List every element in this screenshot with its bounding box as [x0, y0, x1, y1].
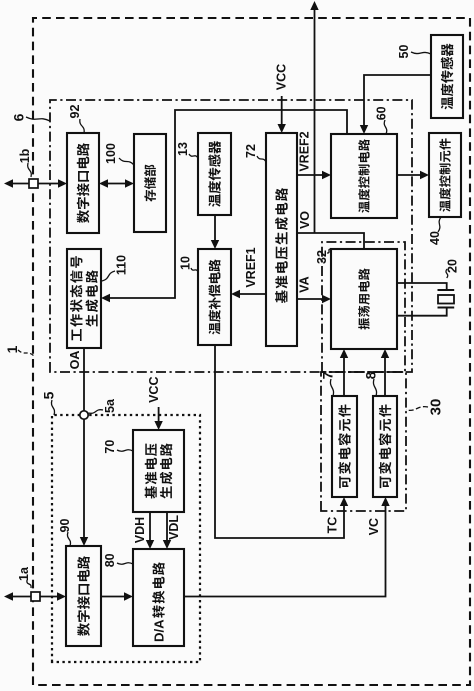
svg-text:VREF1: VREF1 [244, 247, 258, 287]
pad 1b external terminal wire (double arrow) [11, 183, 60, 185]
crystal 20 plate 2 [438, 307, 455, 309]
pad 1b square terminal [29, 179, 38, 188]
svg-text:90: 90 [58, 519, 72, 533]
block 92 digital interface circuit [67, 133, 99, 233]
svg-text:40: 40 [428, 231, 442, 245]
block 10 temperature compensation circuit [198, 249, 231, 345]
block 32 oscillation circuit [331, 249, 397, 349]
svg-text:D/A: D/A [152, 619, 167, 642]
block 8 variable capacitance element [373, 396, 397, 497]
wire VC from 80 to 8 [184, 504, 386, 597]
block 13 temperature sensor [198, 133, 231, 215]
svg-text:8: 8 [363, 371, 379, 379]
wire crystal stub upper [397, 283, 447, 290]
node 5a junction circle [80, 411, 88, 419]
svg-text:13: 13 [176, 142, 190, 156]
block 72 reference voltage generation circuit [266, 133, 297, 346]
crystal 20 plate 1 [438, 289, 455, 291]
svg-text:70: 70 [103, 440, 117, 454]
dotted box 5 (D/A control module) [52, 415, 200, 662]
wire VDH from 70 to 80 arrow [149, 512, 151, 542]
svg-text:100: 100 [104, 143, 118, 164]
svg-text:110: 110 [115, 255, 129, 275]
wire VREF1 from 72 to 10 arrow [238, 293, 266, 295]
block 70 reference voltage generation circuit [133, 430, 184, 512]
svg-text:72: 72 [244, 144, 258, 158]
svg-text:50: 50 [397, 45, 411, 59]
svg-text:1b: 1b [18, 148, 32, 163]
wire TC from 10 to 7 [215, 345, 344, 538]
svg-text:5: 5 [41, 391, 57, 399]
svg-text:92: 92 [68, 105, 82, 119]
svg-text:VDH: VDH [133, 517, 147, 543]
block 100 storage unit [134, 134, 166, 232]
crystal 20 body box [438, 295, 454, 304]
wire crystal stub lower [397, 308, 447, 316]
wire VCC into 70 arrow [158, 407, 160, 423]
svg-text:20: 20 [446, 259, 460, 273]
wire 7 to 32 arrow [343, 356, 345, 396]
wire VCC into 72 arrow [281, 96, 283, 126]
wire 50 to 60 arrow [364, 75, 431, 127]
block 7 variable capacitance element [332, 396, 357, 497]
svg-text:VO: VO [298, 211, 312, 229]
wire 60 to 40 arrow [397, 174, 422, 176]
svg-text:VC: VC [367, 518, 381, 535]
svg-text:1: 1 [4, 345, 20, 353]
block 40 temperature control element [429, 133, 461, 217]
wire VDL from 70 to 80 arrow [166, 512, 168, 542]
svg-text:80: 80 [103, 553, 117, 567]
svg-text:TC: TC [326, 517, 340, 534]
wire VREF2 from 72 to 60 arrow [297, 174, 324, 176]
svg-text:5a: 5a [103, 398, 117, 413]
wire 92 to 100 (double arrow) [106, 183, 127, 185]
wire from 60 to 110 (status feed) [108, 110, 347, 298]
svg-text:VA: VA [298, 276, 312, 292]
block 90 digital interface circuit [66, 546, 101, 646]
svg-text:32: 32 [315, 250, 329, 264]
wire 90 to 80 arrow [101, 596, 126, 598]
pad 1a external terminal wire (double arrow) [11, 596, 59, 598]
block 60 temperature control circuit [331, 134, 397, 218]
svg-text:60: 60 [375, 106, 389, 120]
block 50 temperature sensor [431, 35, 463, 118]
svg-text:OA: OA [68, 351, 82, 370]
svg-text:30: 30 [427, 399, 444, 416]
svg-text:VREF2: VREF2 [298, 131, 312, 171]
svg-text:1a: 1a [17, 566, 31, 581]
dash-dot box around oscillation circuit [322, 242, 405, 372]
svg-text:10: 10 [179, 256, 193, 270]
svg-text:VCC: VCC [147, 376, 161, 402]
dash-dot box 6 (temperature compensation module) [50, 100, 412, 372]
svg-text:VCC: VCC [275, 64, 289, 90]
svg-text:VDL: VDL [167, 515, 181, 540]
wire VO from 72 to 32 and output [297, 233, 364, 248]
wire 13 to 10 arrow [214, 215, 216, 242]
wire VA from 72 to 32 arrow [297, 298, 324, 300]
dash-dot box 30 (variable capacitance module) [321, 372, 406, 511]
wire OA from 110 to 90 arrow [83, 348, 85, 539]
block 110 operating-state signal generation circuit [67, 249, 101, 348]
svg-text:7: 7 [320, 371, 336, 379]
block 80 D/A conversion circuit [133, 549, 184, 646]
pad 1a square terminal [31, 592, 40, 601]
svg-text:6: 6 [11, 113, 27, 121]
wire 8 to 32 arrow [384, 356, 386, 396]
